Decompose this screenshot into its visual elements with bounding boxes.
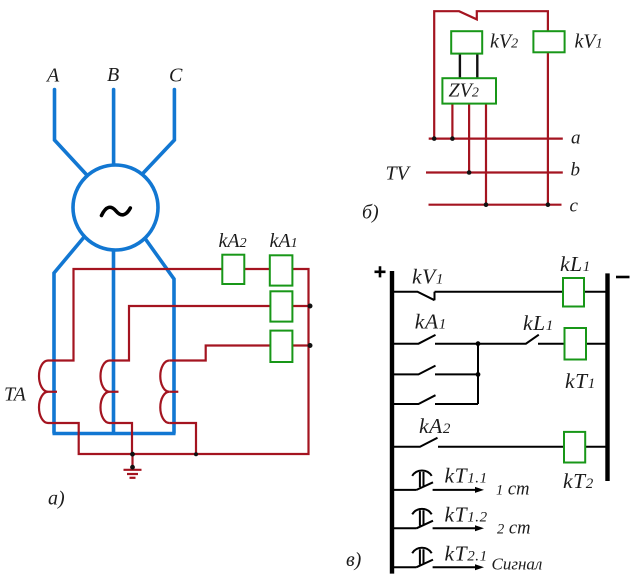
svg-text:в): в) — [346, 549, 362, 571]
svg-text:A: A — [45, 65, 60, 87]
svg-text:B: B — [107, 64, 119, 86]
svg-text:1 ст: 1 ст — [496, 479, 529, 499]
svg-text:c: c — [570, 195, 579, 216]
svg-text:TA: TA — [4, 384, 27, 406]
svg-text:а): а) — [48, 488, 65, 510]
svg-text:Сигнал: Сигнал — [492, 555, 543, 574]
svg-text:C: C — [169, 65, 183, 87]
svg-text:б): б) — [362, 202, 379, 224]
svg-text:TV: TV — [386, 163, 412, 185]
svg-text:2 ст: 2 ст — [497, 519, 530, 539]
svg-text:b: b — [571, 160, 581, 181]
svg-text:a: a — [571, 128, 581, 149]
